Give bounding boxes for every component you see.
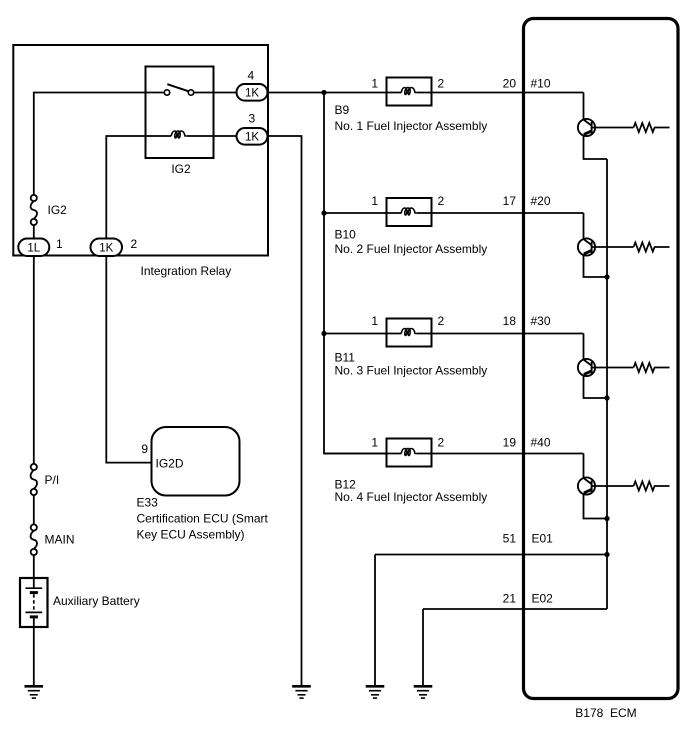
battery Auxiliary Battery (20, 578, 48, 627)
ground (E02) (414, 686, 433, 698)
svg-text:1K: 1K (245, 87, 259, 99)
svg-text:E02: E02 (532, 591, 554, 605)
svg-text:MAIN: MAIN (45, 533, 75, 547)
injector B9 box (387, 78, 432, 106)
wire Q4 base to R4 (592, 485, 634, 487)
junction feed row 1 (321, 90, 326, 95)
svg-text:3: 3 (248, 112, 255, 126)
wire net E01 (375, 554, 607, 556)
svg-text:2: 2 (438, 194, 445, 208)
svg-text:E01: E01 (532, 531, 554, 545)
ground (relay pin 3) (292, 686, 311, 698)
wire Q3 base to R3 (592, 367, 634, 369)
wire Q4 emitter to rail (584, 494, 608, 519)
Integration Relay box (13, 45, 268, 256)
svg-text:51: 51 (503, 531, 517, 545)
svg-text:1: 1 (56, 237, 63, 251)
svg-text:No. 3 Fuel Injector Assembly: No. 3 Fuel Injector Assembly (335, 364, 488, 378)
wire relay pin 2 to certification ECU pin 9 (106, 256, 151, 463)
svg-text:2: 2 (438, 76, 445, 90)
transistor Q1 (578, 93, 595, 137)
wire Q1 base to R1 (592, 127, 634, 129)
svg-text:Integration Relay: Integration Relay (141, 264, 232, 278)
svg-text:B11: B11 (335, 351, 356, 365)
svg-text:IG2D: IG2D (156, 456, 184, 470)
svg-text:B178: B178 (575, 706, 603, 720)
resistor R1 (634, 123, 670, 132)
svg-text:4: 4 (247, 69, 254, 83)
wire relay coil to pin 2 (106, 136, 171, 241)
fuse P/I (31, 464, 37, 495)
svg-text:1: 1 (371, 436, 378, 450)
injector B11 coil (401, 329, 417, 336)
svg-text:Key ECU Assembly): Key ECU Assembly) (137, 528, 245, 542)
svg-text:1K: 1K (245, 131, 259, 143)
ground (E01) (366, 686, 385, 698)
connector 1K pin 4 (237, 84, 268, 101)
switch contact right (188, 90, 193, 95)
svg-text:19: 19 (503, 436, 517, 450)
injector B11 box (387, 319, 432, 347)
wire injector row 2 (324, 212, 584, 214)
wire battery to ground (33, 627, 35, 686)
junction rail Q4 emitter (604, 516, 609, 521)
svg-text:1: 1 (371, 314, 378, 328)
svg-text:2: 2 (438, 314, 445, 328)
Certification ECU box E33 (152, 427, 240, 496)
fuse IG2 (31, 195, 37, 225)
injector B10 coil (401, 208, 417, 215)
wire Q2 emitter to rail (584, 255, 608, 277)
svg-text:20: 20 (503, 76, 517, 90)
svg-text:IG2: IG2 (48, 203, 68, 217)
wire injector row 1 (324, 92, 584, 94)
wire Q3 emitter to rail (584, 375, 608, 398)
wire net E02 (423, 608, 607, 610)
switch contact left (164, 90, 169, 95)
wire switch to relay pin 4 (194, 92, 238, 94)
svg-text:Certification ECU (Smart: Certification ECU (Smart (137, 512, 269, 526)
fuse MAIN (31, 524, 37, 555)
injector B12 coil (401, 449, 417, 456)
wire injector feed column (268, 93, 387, 454)
svg-text:No. 1 Fuel Injector Assembly: No. 1 Fuel Injector Assembly (335, 119, 488, 133)
svg-text:1: 1 (371, 76, 378, 90)
svg-text:IG2: IG2 (171, 162, 191, 176)
wire ECM ground rail (606, 159, 608, 609)
svg-text:Auxiliary Battery: Auxiliary Battery (53, 594, 140, 608)
svg-text:ECM: ECM (610, 706, 637, 720)
svg-text:21: 21 (503, 591, 517, 605)
svg-text:#10: #10 (531, 76, 551, 90)
transistor Q2 (578, 213, 595, 256)
label B178 ECM (575, 706, 636, 720)
injector B9 coil (401, 88, 417, 95)
connector 1K pin 3 (237, 128, 268, 145)
ECM box B178 (524, 19, 679, 699)
transistor Q4 (578, 454, 595, 495)
svg-text:No. 2 Fuel Injector Assembly: No. 2 Fuel Injector Assembly (335, 242, 488, 256)
svg-text:2: 2 (131, 237, 138, 251)
wire Q2 base to R2 (592, 246, 634, 248)
svg-text:P/I: P/I (45, 473, 60, 487)
wire connector 1L to battery (33, 256, 35, 588)
wire injector row 4 (324, 453, 584, 455)
svg-text:E33: E33 (137, 496, 159, 510)
relay coil (171, 131, 187, 138)
wire E02 to ground (422, 609, 424, 686)
svg-text:17: 17 (503, 194, 517, 208)
junction rail Q3 emitter (604, 395, 609, 400)
svg-text:18: 18 (503, 314, 517, 328)
resistor R3 (634, 363, 670, 372)
relay IG2 inner box (146, 67, 214, 159)
switch blade (167, 84, 188, 91)
wire Q1 emitter to rail (584, 135, 608, 159)
connector 1K pin 2 (91, 239, 123, 257)
junction rail E01 (604, 552, 609, 557)
junction feed row 3 (321, 331, 326, 336)
resistor R4 (634, 481, 670, 490)
wire relay pin 3 to ground (268, 136, 302, 686)
wire injector row 3 (324, 333, 584, 335)
svg-text:B10: B10 (335, 228, 357, 242)
wire E01 to ground (374, 555, 376, 687)
svg-text:B9: B9 (335, 103, 350, 117)
svg-text:#40: #40 (531, 436, 551, 450)
wire fuse IG2 up to switch (34, 93, 164, 195)
svg-text:#30: #30 (531, 314, 551, 328)
junction rail Q2 emitter (604, 274, 609, 279)
wire relay coil to pin 3 (187, 135, 238, 137)
svg-text:1: 1 (371, 194, 378, 208)
ground (battery) (25, 686, 44, 698)
connector 1L pin 1 (18, 239, 49, 257)
svg-text:2: 2 (438, 436, 445, 450)
svg-text:1L: 1L (27, 242, 40, 254)
svg-text:9: 9 (141, 442, 148, 456)
resistor R2 (634, 242, 670, 251)
svg-text:No. 4 Fuel Injector Assembly: No. 4 Fuel Injector Assembly (335, 490, 488, 504)
injector B10 box (387, 198, 432, 226)
svg-text:1K: 1K (99, 242, 113, 254)
transistor Q3 (578, 334, 595, 377)
junction feed row 2 (321, 210, 326, 215)
svg-text:#20: #20 (531, 194, 551, 208)
injector B12 box (387, 439, 432, 467)
wire fuse IG2 to connector 1L (33, 225, 35, 241)
